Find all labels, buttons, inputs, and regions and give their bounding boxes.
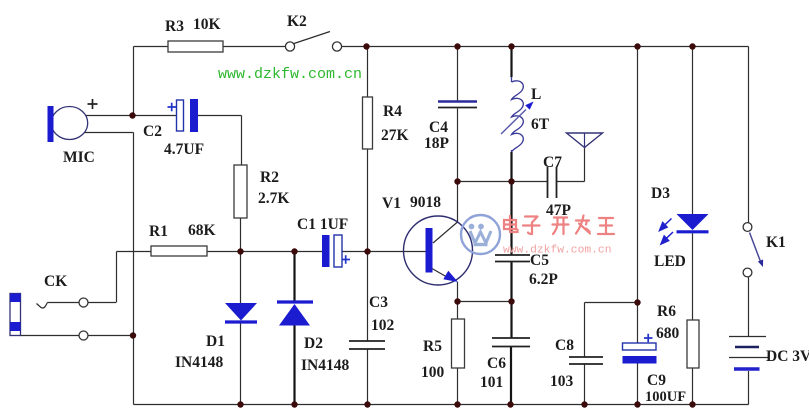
svg-text:R2: R2 [260, 169, 279, 186]
svg-text:V1: V1 [382, 195, 401, 212]
svg-text:C1 1UF: C1 1UF [297, 216, 348, 233]
svg-text:IN4148: IN4148 [175, 354, 223, 371]
svg-text:101: 101 [480, 374, 503, 391]
svg-text:100: 100 [421, 364, 445, 381]
svg-text:C9: C9 [647, 372, 666, 389]
svg-text:6T: 6T [531, 116, 550, 133]
svg-text:K1: K1 [766, 234, 786, 251]
svg-text:R6: R6 [657, 303, 676, 320]
svg-text:K2: K2 [287, 13, 307, 30]
svg-text:C2: C2 [143, 123, 162, 140]
svg-text:R3: R3 [165, 18, 184, 35]
svg-text:6.2P: 6.2P [529, 271, 558, 288]
svg-text:103: 103 [550, 373, 574, 390]
svg-text:MIC: MIC [63, 149, 95, 166]
svg-text:10K: 10K [193, 16, 221, 33]
svg-text:D1: D1 [206, 333, 225, 350]
svg-text:CK: CK [44, 273, 67, 290]
svg-text:IN4148: IN4148 [301, 357, 349, 374]
svg-text:DC 3V: DC 3V [766, 348, 809, 365]
svg-text:D2: D2 [304, 335, 323, 352]
svg-text:C8: C8 [555, 337, 574, 354]
svg-text:www.dzkfw.com.cn: www.dzkfw.com.cn [503, 245, 611, 257]
svg-text:C3: C3 [369, 294, 388, 311]
svg-text:R1: R1 [149, 223, 168, 240]
svg-text:R5: R5 [423, 338, 442, 355]
svg-text:C7: C7 [543, 154, 562, 171]
svg-text:102: 102 [371, 317, 395, 334]
svg-text:L: L [531, 86, 541, 103]
svg-text:R4: R4 [383, 103, 402, 120]
svg-text:2.7K: 2.7K [258, 190, 289, 207]
svg-text:18P: 18P [424, 135, 450, 152]
svg-text:100UF: 100UF [645, 389, 686, 405]
svg-text:D3: D3 [651, 185, 670, 202]
svg-text:680: 680 [656, 325, 680, 342]
svg-text:9018: 9018 [410, 194, 441, 211]
svg-text:C4: C4 [429, 119, 448, 136]
svg-text:www.dzkfw.com.cn: www.dzkfw.com.cn [218, 66, 362, 83]
svg-text:LED: LED [654, 253, 686, 270]
svg-text:27K: 27K [381, 127, 409, 144]
svg-text:4.7UF: 4.7UF [164, 141, 204, 158]
svg-text:68K: 68K [188, 222, 216, 239]
svg-text:C6: C6 [487, 355, 506, 372]
